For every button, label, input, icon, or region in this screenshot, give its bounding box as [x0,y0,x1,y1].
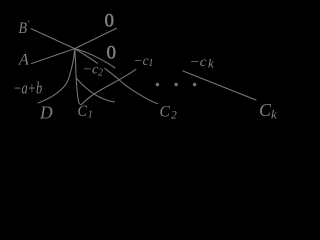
svg-text:B: B [19,20,28,37]
svg-text:C: C [160,103,171,120]
svg-text:0: 0 [105,11,115,32]
svg-text:1: 1 [148,58,153,69]
svg-text:2: 2 [171,109,177,121]
svg-text:C: C [78,103,88,120]
svg-text:1: 1 [88,109,93,120]
svg-text:−a+b: −a+b [13,79,42,98]
svg-text:−c: −c [190,55,208,70]
svg-text:−c: −c [83,62,99,77]
svg-text:0: 0 [107,43,117,64]
svg-text:2: 2 [98,68,103,79]
svg-text:D: D [39,103,53,123]
svg-text:−c: −c [134,54,150,69]
svg-text:A: A [18,52,29,69]
svg-text:k: k [208,55,214,70]
svg-text:k: k [271,107,277,122]
